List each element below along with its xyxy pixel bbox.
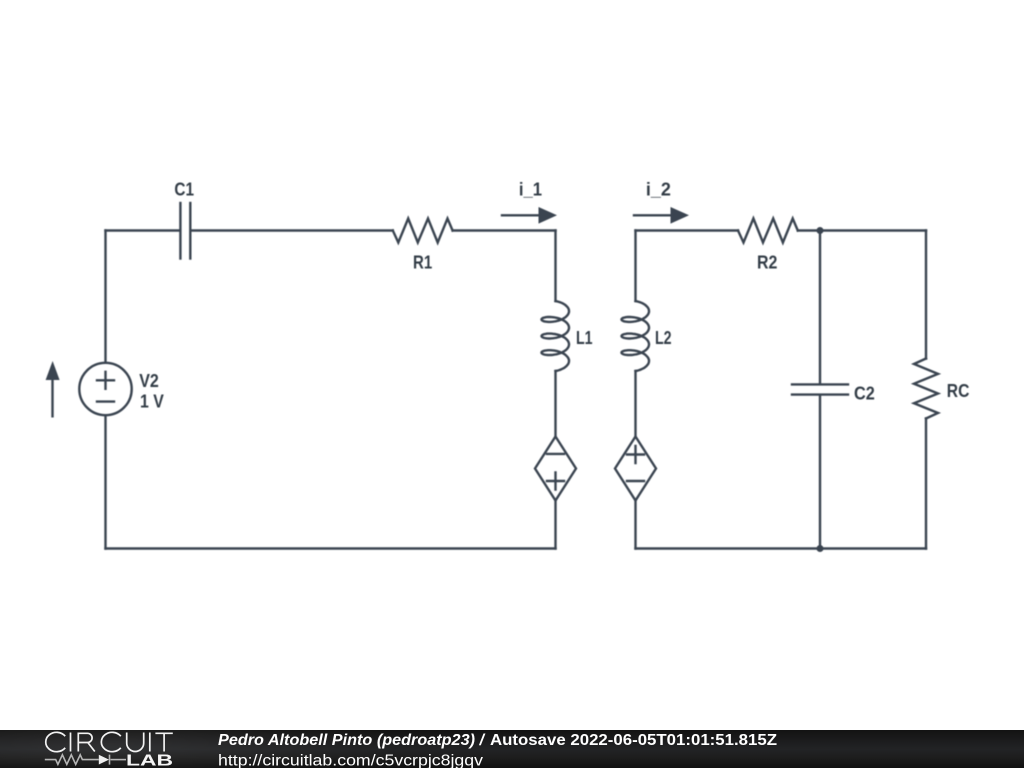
- dependent source B1 (diamond, - over +): [535, 437, 576, 501]
- wire R1 to top-right corner of loop1: [453, 229, 556, 231]
- current arrow i_2: [634, 207, 689, 224]
- wire B1 to bottom rail: [554, 501, 556, 549]
- svg-text:i_1: i_1: [519, 179, 542, 199]
- resistor R2: [738, 219, 798, 243]
- wire loop2 top-left corner down to L2: [634, 231, 636, 302]
- wire L1 to source B1: [554, 371, 556, 437]
- resistor RC: [914, 359, 938, 419]
- CircuitLab logo wordmark CIRCUIT: [46, 732, 173, 751]
- junction node top: [817, 227, 824, 234]
- svg-text:Pedro Altobell Pinto (pedroatp: Pedro Altobell Pinto (pedroatp23) /: [218, 732, 486, 749]
- dependent source B2 (diamond, + over -): [615, 437, 656, 501]
- wire R2 to right corner: [798, 229, 926, 231]
- svg-text:Autosave 2022-06-05T01:01:51.8: Autosave 2022-06-05T01:01:51.815Z: [490, 732, 778, 749]
- svg-text:i_2: i_2: [646, 179, 671, 199]
- right rail lower: [925, 419, 927, 549]
- svg-text:R2: R2: [757, 252, 777, 272]
- wire B2 to bottom rail: [634, 501, 636, 549]
- inductor L1: [542, 301, 570, 371]
- svg-text:LAB: LAB: [126, 753, 173, 768]
- wire node down to C2: [819, 231, 821, 384]
- capacitor C2: [792, 384, 848, 394]
- wire corner down to L1: [554, 231, 556, 302]
- svg-text:R1: R1: [413, 252, 432, 272]
- wire L2 to source B2: [634, 371, 636, 437]
- left rail lower segment: [104, 231, 106, 363]
- svg-text:http://circuitlab.com/c5vcrpjc: http://circuitlab.com/c5vcrpjc8jgqv: [218, 752, 483, 768]
- footer credit line: [218, 732, 778, 768]
- svg-text:C1: C1: [174, 180, 194, 200]
- current arrow i_1: [502, 207, 557, 224]
- svg-text:C2: C2: [854, 384, 875, 404]
- left rail upper segment: [104, 416, 106, 549]
- capacitor C1: [180, 203, 190, 259]
- voltage source V2 circle: [79, 363, 131, 415]
- wire C1 to R1: [192, 229, 393, 231]
- resistor R1: [393, 219, 453, 243]
- right rail upper: [925, 231, 927, 359]
- wire C2 to bottom rail: [819, 396, 821, 549]
- bottom wire of loop1: [106, 547, 556, 549]
- bottom wire of loop2: [636, 547, 927, 549]
- logo resistor-diode squiggle: [45, 755, 126, 765]
- wire loop2 top to R2: [636, 229, 739, 231]
- svg-text:RC: RC: [947, 381, 970, 401]
- svg-text:V2: V2: [139, 371, 159, 391]
- svg-text:1 V: 1 V: [140, 392, 164, 412]
- wire top-left from left rail to C1: [106, 229, 180, 231]
- junction node bottom: [817, 545, 824, 552]
- polarity arrow beside V2: [46, 361, 60, 416]
- svg-text:L2: L2: [655, 328, 672, 348]
- svg-text:L1: L1: [576, 328, 593, 348]
- inductor L2: [622, 301, 650, 371]
